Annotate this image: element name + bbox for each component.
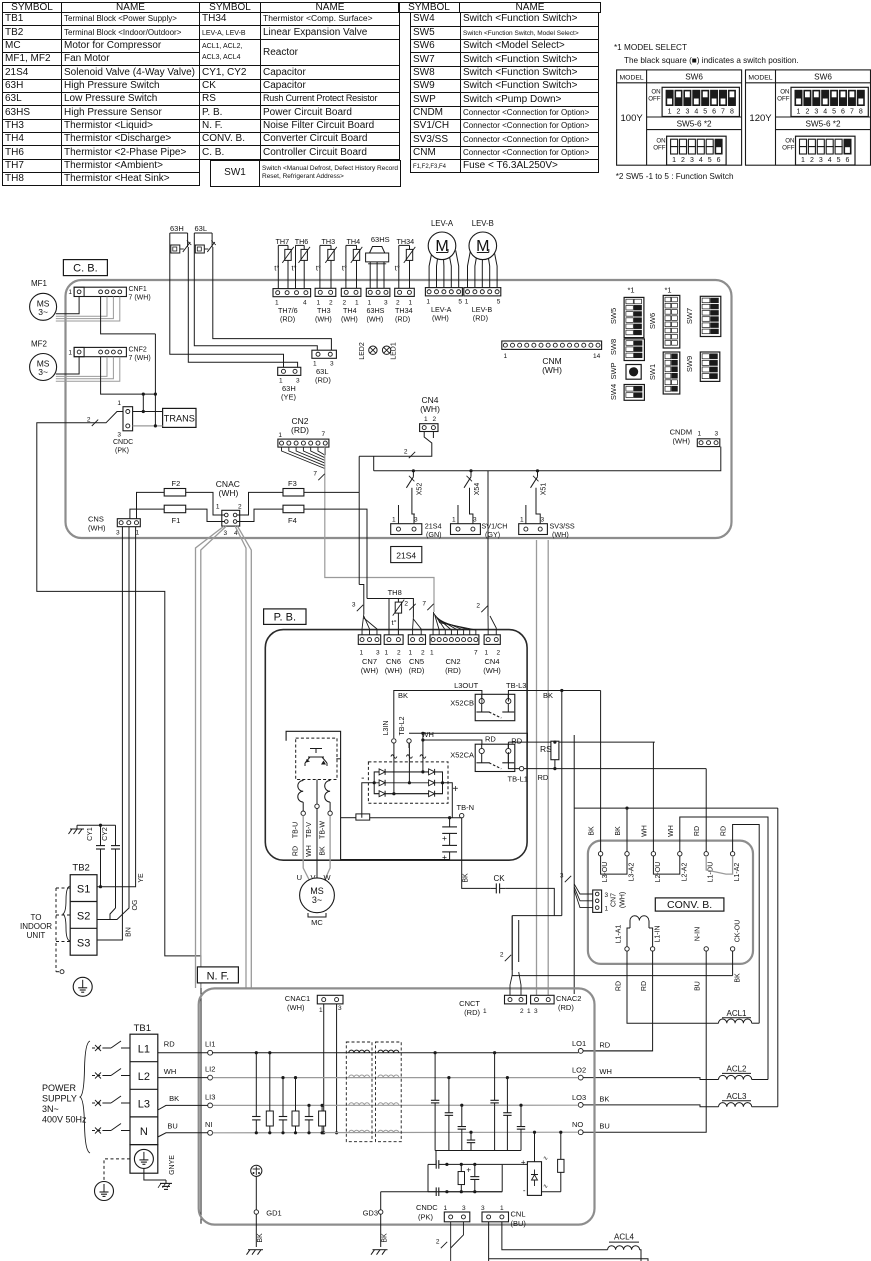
svg-text:3: 3	[384, 300, 388, 307]
svg-text:5: 5	[708, 157, 712, 164]
svg-text:5: 5	[832, 109, 836, 116]
wire BK to L3-OU	[600, 691, 602, 852]
svg-text:1: 1	[698, 431, 702, 438]
relay contact X52	[412, 471, 414, 477]
svg-text:UNIT: UNIT	[27, 931, 46, 940]
svg-text:(WH): (WH)	[620, 892, 627, 908]
svg-text:(WH): (WH)	[432, 314, 449, 323]
wire RS bottom	[554, 760, 556, 769]
svg-text:F1: F1	[172, 516, 181, 525]
wire module dc rail	[286, 731, 450, 859]
wires CNAC right to F3/F4 and onward	[237, 492, 283, 515]
svg-text:3: 3	[338, 1005, 342, 1012]
svg-text:RD: RD	[293, 846, 300, 856]
svg-text:SW9: SW9	[685, 356, 694, 372]
svg-text:*1: *1	[627, 286, 634, 295]
wire CY2 to S2	[110, 908, 116, 920]
svg-text:∿: ∿	[543, 1184, 548, 1190]
svg-text:WH: WH	[306, 845, 313, 857]
wire L3 bus	[213, 1104, 579, 1106]
svg-text:SW7: SW7	[685, 308, 694, 324]
svg-text:6: 6	[841, 109, 845, 116]
svg-text:TB-L2: TB-L2	[399, 716, 406, 735]
svg-text:BK: BK	[257, 1233, 264, 1243]
svg-text:2: 2	[681, 157, 685, 164]
connector LEV-B (RD)	[464, 288, 501, 296]
svg-text:TRANS: TRANS	[164, 414, 195, 424]
svg-text:8: 8	[730, 109, 734, 116]
svg-text:100Y: 100Y	[621, 113, 644, 124]
svg-text:(YE): (YE)	[281, 393, 297, 402]
wires LEV-B coil to connector	[468, 252, 471, 288]
svg-text:2: 2	[404, 601, 408, 608]
svg-text:L3-A2: L3-A2	[629, 863, 636, 882]
connector CNF1 (WH)	[74, 287, 126, 296]
wire L2-A2 riser to ACL2	[680, 817, 768, 1080]
svg-text:LI2: LI2	[205, 1065, 215, 1074]
svg-text:1: 1	[500, 1205, 504, 1212]
svg-text:7: 7	[422, 601, 426, 608]
svg-text:L1: L1	[138, 1044, 150, 1056]
svg-text:N-IN: N-IN	[695, 927, 702, 941]
wire 2-core into CNCT	[510, 975, 512, 995]
svg-text:(RD): (RD)	[558, 1003, 574, 1012]
wire count 7	[318, 474, 324, 480]
connector 63HS (WH)	[366, 288, 390, 296]
svg-text:1: 1	[452, 517, 456, 524]
svg-text:L3: L3	[138, 1099, 150, 1111]
wire rail y808	[574, 807, 778, 809]
svg-text:TH7: TH7	[276, 237, 290, 246]
svg-text:L2-A2: L2-A2	[681, 863, 688, 882]
svg-text:GD1: GD1	[266, 1209, 281, 1218]
wire CK zigzag	[505, 888, 554, 915]
svg-text:OG: OG	[132, 900, 139, 911]
wires CNS 3-core down to TB2	[97, 527, 122, 940]
svg-text:TH8: TH8	[388, 588, 402, 597]
svg-text:1: 1	[216, 504, 220, 511]
svg-text:+: +	[466, 1166, 471, 1175]
svg-text:CN7: CN7	[611, 893, 618, 907]
wire lower rail	[447, 1191, 502, 1193]
wire L1 bus	[213, 1052, 579, 1054]
wire count 3	[565, 876, 571, 882]
chassis ground for CY	[70, 828, 84, 830]
svg-text:ACL2: ACL2	[726, 1065, 747, 1074]
svg-text:1: 1	[424, 416, 428, 423]
svg-text:3: 3	[117, 432, 121, 439]
svg-text:t°: t°	[292, 263, 297, 272]
dashed leads into TB2	[56, 887, 70, 889]
svg-text:BK: BK	[599, 1094, 609, 1103]
wires LEV-A coil to connector	[429, 255, 431, 288]
svg-text:1: 1	[319, 1007, 323, 1014]
svg-text:(RD): (RD)	[473, 314, 488, 323]
svg-text:2: 2	[805, 109, 809, 116]
svg-text:BK: BK	[735, 973, 742, 983]
wire count 2	[441, 1242, 447, 1248]
svg-text:MF1: MF1	[31, 279, 48, 288]
svg-text:BK: BK	[320, 846, 327, 856]
diode bridge dashed box	[368, 762, 448, 803]
svg-text:21S4: 21S4	[396, 551, 416, 561]
svg-text:5: 5	[497, 299, 501, 306]
svg-text:(WH): (WH)	[420, 404, 440, 414]
bridge inner box	[374, 772, 442, 794]
svg-text:BK: BK	[589, 826, 596, 836]
model select table 120Y	[746, 70, 871, 165]
svg-text:CNF2: CNF2	[129, 346, 147, 353]
brace arcs	[63, 886, 70, 941]
svg-text:1: 1	[672, 157, 676, 164]
wire N bus	[213, 1131, 579, 1134]
svg-text:CNCT: CNCT	[459, 999, 480, 1008]
svg-text:3: 3	[116, 530, 120, 537]
wire to ACL3 right	[777, 808, 779, 1107]
wire N-IN to NO	[583, 951, 706, 1132]
wire L3IN down to bridge	[393, 743, 395, 794]
svg-text:LI3: LI3	[205, 1092, 215, 1101]
svg-text:CNDC: CNDC	[113, 439, 133, 446]
wire F4 down to CN5 feed	[366, 520, 368, 599]
svg-text:L3IN: L3IN	[383, 721, 390, 736]
svg-text:BK: BK	[615, 826, 622, 836]
svg-text:SW6: SW6	[648, 313, 657, 329]
svg-text:CNAC1: CNAC1	[285, 994, 310, 1003]
wire vertical x574	[573, 735, 575, 994]
svg-text:1: 1	[797, 109, 801, 116]
svg-text:3~: 3~	[38, 307, 48, 317]
svg-text:2: 2	[497, 650, 501, 657]
transformer TRANS box	[163, 408, 196, 427]
wire CNDC pin3 to TRANS lower (gray)	[133, 425, 163, 427]
wire CN5 feed	[367, 599, 413, 618]
svg-text:L2: L2	[138, 1071, 150, 1083]
svg-text:CN7: CN7	[362, 657, 377, 666]
svg-text:*1 MODEL SELECT: *1 MODEL SELECT	[614, 43, 687, 52]
svg-text:ON: ON	[651, 89, 660, 96]
svg-text:t°: t°	[316, 263, 321, 272]
svg-text:TO: TO	[31, 913, 42, 922]
filter cap/resistor bank	[255, 1053, 257, 1117]
svg-text:N. F.: N. F.	[207, 970, 230, 982]
svg-text:X52CB: X52CB	[450, 699, 474, 708]
svg-text:CY1: CY1	[87, 827, 94, 841]
svg-text:t°: t°	[392, 618, 397, 627]
connector TH3 (WH)	[315, 288, 336, 296]
connector CN4 (WH) on P.B.	[484, 635, 500, 645]
svg-text:SW8: SW8	[609, 339, 618, 355]
svg-text:NO: NO	[572, 1120, 583, 1129]
svg-text:(RD): (RD)	[445, 666, 461, 675]
svg-text:(RD): (RD)	[395, 315, 410, 324]
resistor in cluster	[460, 1164, 462, 1171]
wires CNS-F2-F1-CNAC	[137, 492, 165, 518]
svg-text:3: 3	[473, 517, 477, 524]
svg-text:SW6: SW6	[814, 73, 832, 82]
svg-text:3~: 3~	[38, 367, 48, 377]
wire BK down	[561, 691, 563, 916]
connector CN6 (WH)	[384, 635, 403, 645]
wire L1-A2 riser to ACL1	[733, 825, 760, 1024]
svg-text:RD: RD	[641, 981, 648, 991]
svg-text:CN5: CN5	[409, 657, 424, 666]
svg-text:(RD): (RD)	[315, 376, 331, 385]
wire CNDC pin1 to TRANS	[133, 411, 163, 413]
power circuit board P.B. outline	[265, 630, 527, 861]
svg-text:RD: RD	[721, 826, 728, 836]
svg-text:1: 1	[483, 1008, 487, 1015]
svg-text:TH3: TH3	[322, 237, 336, 246]
svg-text:2: 2	[397, 650, 401, 657]
svg-text:(GN): (GN)	[426, 530, 442, 539]
wire L3-A2 riser to y808 rail	[626, 808, 628, 852]
svg-text:+: +	[521, 1158, 526, 1167]
svg-text:LI1: LI1	[205, 1040, 215, 1049]
svg-text:BK: BK	[169, 1094, 179, 1103]
connector SV3/SS (WH)	[519, 524, 548, 535]
svg-text:MODEL: MODEL	[748, 74, 772, 81]
wire CNAC1 pin1 down	[323, 1004, 325, 1133]
wire CN4 2-core to option bus	[359, 432, 432, 457]
caps after chokes	[434, 1053, 436, 1101]
svg-text:1: 1	[465, 299, 469, 306]
svg-text:6: 6	[846, 157, 850, 164]
svg-text:TB-V: TB-V	[306, 822, 313, 838]
svg-text:CNDM: CNDM	[670, 428, 693, 437]
svg-text:1: 1	[430, 650, 434, 657]
svg-text:5: 5	[703, 109, 707, 116]
pin GD3	[379, 1210, 383, 1214]
svg-text:63L: 63L	[195, 224, 208, 233]
svg-text:L2-OU: L2-OU	[655, 862, 662, 883]
svg-text:3: 3	[462, 1205, 466, 1212]
svg-text:LO1: LO1	[572, 1039, 586, 1048]
svg-text:OFF: OFF	[777, 96, 790, 103]
svg-text:1: 1	[520, 517, 524, 524]
svg-text:1: 1	[117, 400, 121, 407]
earth ground	[73, 977, 92, 996]
TB1 ground cell	[130, 1145, 158, 1174]
svg-text:CNAC2: CNAC2	[556, 994, 581, 1003]
smoothing capacitors	[449, 818, 451, 827]
svg-text:3: 3	[685, 109, 689, 116]
dashed ground lead	[55, 888, 57, 972]
svg-text:*2 SW5 -1 to 5 : Function Swi: *2 SW5 -1 to 5 : Function Switch	[616, 172, 734, 181]
svg-text:OFF: OFF	[782, 145, 795, 152]
svg-text:2: 2	[436, 1239, 440, 1246]
wire L1-A1 to ACL1	[627, 951, 719, 1023]
svg-text:LO3: LO3	[572, 1093, 586, 1102]
wire X52CB left to L3IN	[394, 691, 482, 739]
svg-text:ON: ON	[785, 138, 794, 145]
svg-text:6: 6	[717, 157, 721, 164]
svg-text:SWP: SWP	[609, 362, 618, 379]
svg-text:BU: BU	[599, 1122, 609, 1131]
svg-text:GNYE: GNYE	[169, 1155, 176, 1175]
svg-text:RD: RD	[164, 1040, 175, 1049]
svg-text:L1-A1: L1-A1	[616, 925, 623, 944]
svg-text:CK-OU: CK-OU	[735, 920, 742, 943]
connector 21S4 (GN)	[391, 524, 422, 535]
connector TH34 (RD)	[395, 288, 415, 296]
svg-text:L1-A2: L1-A2	[734, 863, 741, 882]
wire bridge plus out	[443, 783, 453, 816]
svg-text:3~: 3~	[312, 895, 322, 905]
pins TB-U TB-V TB-W	[302, 780, 304, 781]
connector TH7/6 (RD)	[273, 289, 311, 297]
svg-text:MF2: MF2	[31, 339, 48, 348]
wire count 7	[427, 604, 433, 610]
pin L3-A2	[625, 852, 629, 856]
svg-text:1: 1	[385, 650, 389, 657]
svg-text:X54: X54	[474, 483, 481, 496]
svg-text:63H: 63H	[170, 224, 184, 233]
svg-text:(RD): (RD)	[409, 666, 425, 675]
dashed module box	[296, 738, 337, 779]
svg-text:4: 4	[699, 157, 703, 164]
svg-text:1: 1	[801, 157, 805, 164]
LED1 indicator	[382, 346, 390, 354]
svg-text:1: 1	[278, 432, 282, 439]
N.F. label box	[197, 967, 238, 983]
svg-text:(PK): (PK)	[115, 448, 129, 455]
svg-text:ACL3: ACL3	[726, 1092, 747, 1101]
connector CNDC (PK)	[123, 407, 133, 431]
svg-text:WH: WH	[164, 1067, 177, 1076]
wires down to CNAC2 (gray pair)	[536, 540, 538, 995]
svg-text:SW5: SW5	[609, 308, 618, 324]
svg-text:TB-N: TB-N	[457, 803, 475, 812]
connector CN7 (WH) on CONV.B.	[593, 890, 602, 912]
svg-text:1: 1	[485, 650, 489, 657]
svg-text:3: 3	[534, 1008, 538, 1015]
model select table 100Y	[617, 70, 742, 165]
svg-text:3: 3	[814, 109, 818, 116]
wire LO3 to ACL3	[583, 1105, 719, 1107]
svg-text:S1: S1	[77, 884, 90, 896]
wire option bus to X contacts and CNDM	[374, 447, 721, 471]
svg-text:3: 3	[352, 602, 356, 609]
svg-text:3: 3	[605, 892, 609, 899]
svg-text:(WH): (WH)	[367, 315, 384, 324]
wire RD TB-L1 right	[508, 752, 519, 769]
svg-text:(WH): (WH)	[88, 524, 106, 533]
svg-text:LO2: LO2	[572, 1066, 586, 1075]
svg-text:1: 1	[668, 109, 672, 116]
svg-text:(RD): (RD)	[464, 1008, 480, 1017]
svg-text:(PK): (PK)	[418, 1213, 434, 1222]
wire L1-IN to LO1	[583, 951, 653, 1051]
wire LO2 to ACL2	[583, 1078, 719, 1080]
svg-text:120Y: 120Y	[749, 113, 772, 124]
svg-text:1: 1	[426, 299, 430, 306]
connector CN5 (RD)	[408, 635, 425, 645]
svg-text:3: 3	[330, 361, 334, 368]
svg-text:+: +	[442, 833, 447, 843]
svg-text:400V 50Hz: 400V 50Hz	[42, 1115, 87, 1125]
svg-text:7 (WH): 7 (WH)	[129, 355, 151, 362]
wire count 2	[505, 955, 511, 961]
wire diode top to NI	[534, 1133, 536, 1162]
wire CN7 feed	[359, 585, 364, 615]
svg-text:TH4: TH4	[347, 237, 361, 246]
svg-text:3: 3	[715, 431, 719, 438]
svg-text:X52: X52	[417, 483, 424, 496]
wires 3-core into CN7 conv	[574, 884, 593, 894]
svg-text:WH: WH	[599, 1067, 612, 1076]
svg-text:2: 2	[238, 504, 242, 511]
svg-text:(WH): (WH)	[542, 365, 562, 375]
svg-text:*1: *1	[664, 286, 671, 295]
svg-text:F2: F2	[172, 479, 181, 488]
svg-text:TB-L3: TB-L3	[506, 681, 526, 690]
lower cluster caps/diode	[435, 1151, 437, 1165]
svg-text:(RD): (RD)	[291, 425, 309, 435]
wire LO1 to L1-IN riser	[583, 1050, 653, 1052]
connector CNM (WH) 14pin	[502, 341, 602, 349]
svg-text:CNL: CNL	[511, 1210, 526, 1219]
wire branch to CNDC pin1	[142, 394, 144, 411]
transistor IGBT	[305, 749, 327, 767]
svg-text:SW1: SW1	[648, 364, 657, 380]
pin L1-A2	[730, 852, 734, 856]
pin L1-OU	[704, 852, 708, 856]
svg-text:LED1: LED1	[391, 342, 398, 360]
connector SV1/CH (GY)	[451, 524, 481, 535]
svg-text:N: N	[140, 1126, 148, 1138]
svg-text:RD: RD	[694, 826, 701, 836]
svg-text:7: 7	[322, 431, 326, 438]
svg-text:4: 4	[828, 157, 832, 164]
svg-text:1: 1	[68, 289, 72, 296]
connector CN7 (WH) on P.B.	[358, 635, 380, 645]
svg-text:ON: ON	[656, 138, 665, 145]
wire TB-N down to CK	[462, 818, 491, 889]
connector 63H (YE)	[278, 367, 301, 375]
wires U-links L2 pair	[653, 856, 679, 874]
svg-text:CONV. B.: CONV. B.	[667, 899, 712, 911]
svg-text:4: 4	[694, 109, 698, 116]
wire bridge minus out	[362, 783, 374, 818]
wire GNYE to chassis	[144, 1168, 166, 1180]
pin TB-N	[460, 813, 464, 817]
coils under IGBT	[298, 781, 303, 803]
svg-text:5: 5	[837, 157, 841, 164]
svg-text:2: 2	[520, 1008, 524, 1015]
svg-text:(WH): (WH)	[287, 1003, 305, 1012]
svg-text:BK: BK	[398, 691, 408, 700]
svg-text:(BU): (BU)	[511, 1219, 527, 1228]
svg-text:2: 2	[433, 416, 437, 423]
svg-text:F3: F3	[288, 479, 297, 488]
svg-text:MODEL: MODEL	[620, 74, 644, 81]
wire TB-L2 down to bridge	[408, 743, 410, 783]
resistor right of diode block	[560, 1140, 562, 1159]
svg-text:BU: BU	[695, 981, 702, 991]
svg-text:ON: ON	[780, 89, 789, 96]
svg-text:2: 2	[404, 449, 408, 456]
wires CNF2 to MF2	[56, 357, 79, 374]
converter circuit board CONV.B. outline	[588, 841, 753, 964]
dashed supply leads with switches	[92, 1047, 104, 1049]
svg-text:3: 3	[690, 157, 694, 164]
ground marker inside N.F.	[251, 1165, 262, 1176]
svg-text:U: U	[297, 873, 302, 882]
svg-text:OFF: OFF	[648, 96, 661, 103]
svg-text:SUPPLY: SUPPLY	[42, 1094, 77, 1104]
P.B. label box	[264, 609, 306, 625]
